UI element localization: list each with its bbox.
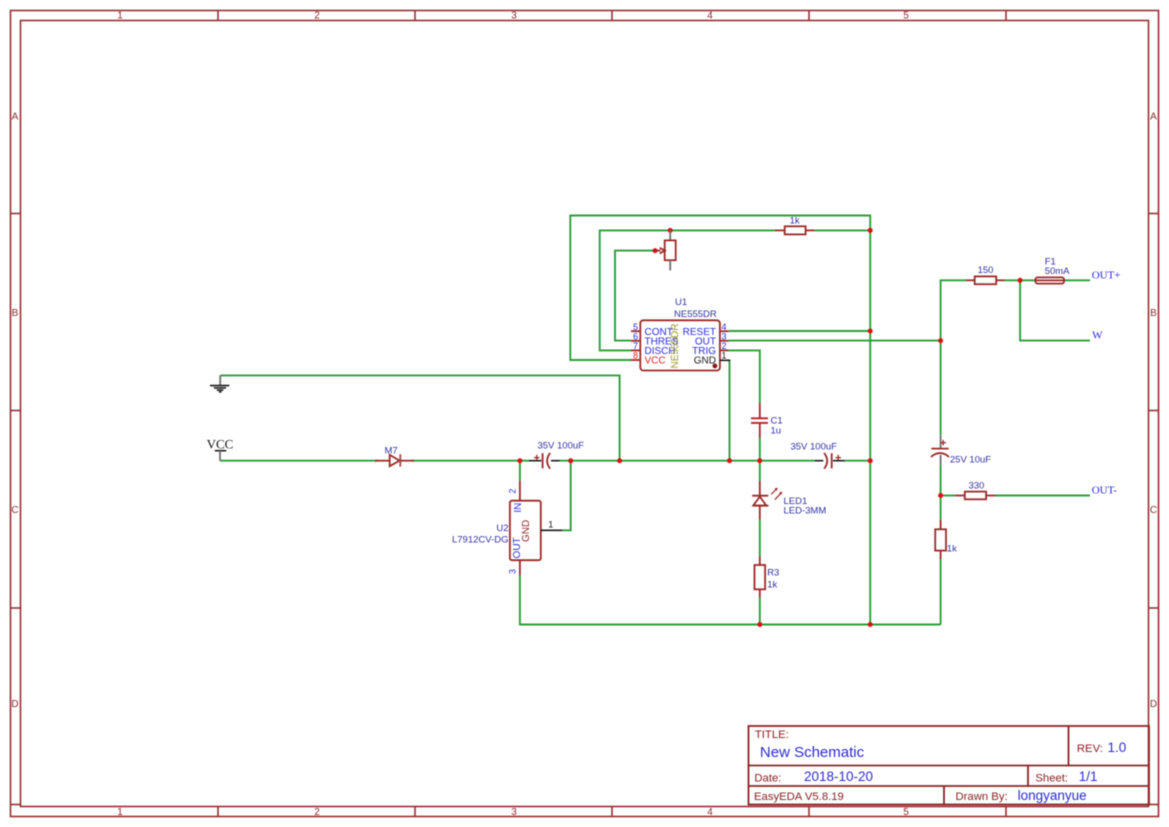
svg-text:LED-3MM: LED-3MM	[784, 505, 827, 516]
svg-text:1: 1	[117, 11, 123, 22]
svg-text:D: D	[1150, 699, 1157, 710]
svg-text:5: 5	[903, 11, 909, 22]
svg-text:1k: 1k	[767, 579, 777, 590]
svg-text:W: W	[1092, 330, 1103, 342]
svg-text:NE555DR: NE555DR	[674, 309, 717, 320]
svg-text:5: 5	[633, 322, 638, 332]
svg-text:1: 1	[722, 351, 727, 361]
svg-text:OUT+: OUT+	[1092, 269, 1121, 281]
svg-text:A: A	[1150, 112, 1157, 123]
svg-text:Sheet:: Sheet:	[1035, 773, 1068, 785]
svg-text:1/1: 1/1	[1079, 769, 1098, 784]
svg-text:VCC: VCC	[645, 356, 666, 367]
svg-text:VCC: VCC	[207, 437, 234, 452]
svg-text:1.0: 1.0	[1108, 740, 1127, 755]
svg-text:8: 8	[633, 351, 638, 361]
svg-text:25V 10uF: 25V 10uF	[950, 455, 991, 466]
svg-text:2: 2	[314, 807, 320, 818]
svg-text:IN: IN	[513, 503, 524, 513]
svg-text:Date:: Date:	[754, 773, 781, 785]
svg-text:U1: U1	[675, 297, 687, 308]
svg-text:1k: 1k	[947, 544, 957, 555]
svg-text:L7912CV-DG: L7912CV-DG	[452, 535, 509, 546]
svg-text:2: 2	[314, 11, 320, 22]
svg-text:3: 3	[507, 569, 517, 574]
svg-text:R3: R3	[767, 567, 779, 578]
svg-text:D: D	[11, 699, 18, 710]
svg-text:3: 3	[722, 331, 727, 341]
svg-text:6: 6	[633, 331, 638, 341]
svg-text:2: 2	[507, 489, 517, 494]
svg-text:7: 7	[633, 341, 638, 351]
svg-text:A: A	[12, 112, 19, 123]
svg-text:150: 150	[978, 265, 994, 276]
svg-text:B: B	[1150, 308, 1157, 319]
svg-text:1: 1	[548, 520, 553, 530]
svg-text:NE555DR: NE555DR	[670, 323, 681, 368]
svg-text:5: 5	[903, 807, 909, 818]
svg-text:4: 4	[707, 11, 713, 22]
svg-text:C: C	[11, 505, 18, 516]
svg-text:3: 3	[511, 807, 517, 818]
svg-text:35V 100uF: 35V 100uF	[790, 442, 837, 453]
svg-text:35V 100uF: 35V 100uF	[537, 441, 584, 452]
svg-text:OUT-: OUT-	[1092, 484, 1118, 496]
svg-text:U2: U2	[496, 523, 508, 534]
svg-text:OUT: OUT	[512, 537, 523, 558]
svg-text:4: 4	[707, 807, 713, 818]
svg-text:1: 1	[117, 807, 123, 818]
svg-text:EasyEDA V5.8.19: EasyEDA V5.8.19	[754, 791, 844, 803]
svg-text:3: 3	[511, 11, 517, 22]
svg-text:2018-10-20: 2018-10-20	[804, 769, 873, 784]
svg-text:C: C	[1150, 505, 1157, 516]
svg-text:4: 4	[722, 322, 727, 332]
svg-text:Drawn By:: Drawn By:	[956, 791, 1008, 803]
svg-text:TITLE:: TITLE:	[755, 729, 789, 741]
svg-text:longyanyue: longyanyue	[1018, 788, 1087, 803]
svg-text:GND: GND	[694, 356, 716, 367]
svg-text:1k: 1k	[790, 215, 800, 226]
svg-text:50mA: 50mA	[1045, 266, 1070, 277]
svg-text:1u: 1u	[771, 425, 782, 436]
svg-text:New Schematic: New Schematic	[760, 744, 865, 761]
svg-text:330: 330	[968, 481, 984, 492]
svg-text:B: B	[12, 308, 19, 319]
svg-text:REV:: REV:	[1077, 743, 1103, 755]
svg-text:2: 2	[722, 341, 727, 351]
